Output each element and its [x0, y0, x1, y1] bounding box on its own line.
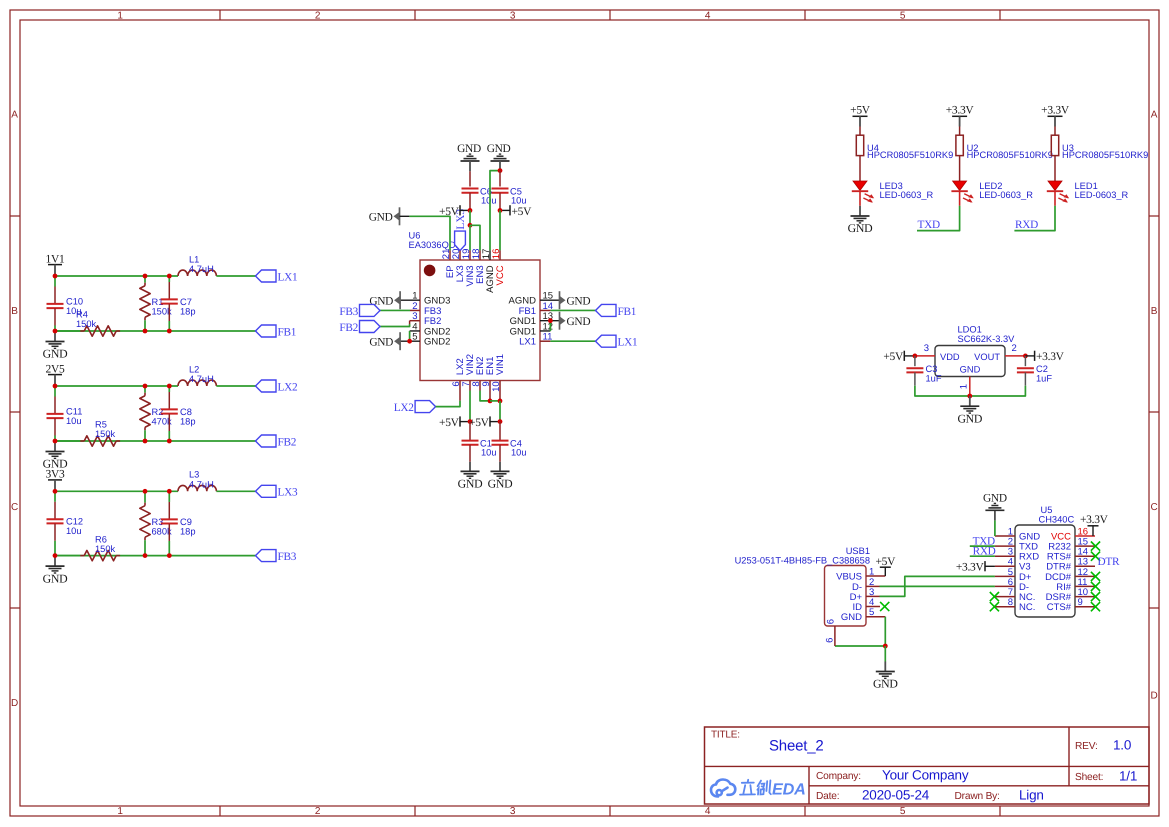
svg-text:+5V: +5V	[850, 105, 871, 117]
capacitor C9	[168, 491, 170, 502]
wire USB GND net	[884, 617, 886, 646]
junction C1 top	[468, 419, 473, 424]
svg-text:FB1: FB1	[278, 326, 297, 338]
svg-text:C11: C11	[66, 407, 82, 417]
resistor U4 HPCR0805F510RK9	[859, 127, 861, 136]
svg-text:USB1: USB1	[846, 546, 870, 556]
svg-text:2020-05-24: 2020-05-24	[862, 787, 930, 802]
U6 pin4 stub	[410, 330, 420, 332]
svg-text:VOUT: VOUT	[974, 352, 1000, 362]
EasyEDA logo	[711, 780, 735, 797]
wire pin10 down to +5V/C4	[499, 401, 501, 422]
LED LED3	[853, 181, 867, 190]
U5 pin3 stub	[995, 555, 1015, 557]
U6 pin1 wire to GND flag	[400, 299, 420, 301]
U6 pin6 stub	[459, 381, 461, 401]
no-connect X (USB ID)	[880, 602, 889, 611]
no-connect X (U5 pin14)	[1091, 552, 1100, 561]
junction USB ground	[883, 644, 888, 649]
U5 pin4 stub	[995, 565, 1015, 567]
svg-text:EDA: EDA	[772, 781, 806, 799]
GND flag (U6 pin15)	[559, 291, 561, 309]
ground (LDO)	[969, 396, 971, 406]
capacitor C3	[914, 356, 916, 366]
GND flag (U6 pin5)	[399, 332, 401, 350]
junction C3 top	[913, 354, 918, 359]
svg-text:GND: GND	[457, 143, 481, 155]
svg-text:1: 1	[117, 806, 123, 817]
U5 pin16 stub VCC	[1075, 535, 1095, 537]
U5 pin12 stub	[1075, 575, 1095, 577]
junction pin10	[498, 399, 503, 404]
GND flag (U6 pin1)	[399, 291, 401, 309]
svg-text:Sheet:: Sheet:	[1075, 772, 1103, 783]
svg-text:TITLE:: TITLE:	[711, 730, 740, 741]
U5 pin9 stub	[1075, 606, 1095, 608]
svg-text:VCC: VCC	[495, 265, 506, 285]
svg-text:RXD: RXD	[973, 546, 996, 558]
svg-text:18p: 18p	[180, 417, 196, 427]
wire pin17 AGND up to GND	[490, 171, 500, 251]
svg-text:TXD: TXD	[918, 219, 940, 231]
svg-text:3: 3	[924, 343, 929, 354]
svg-text:6: 6	[824, 638, 835, 643]
svg-text:A: A	[1151, 110, 1158, 121]
no-connect X (U5 pin12)	[1091, 572, 1100, 581]
port FB3	[256, 550, 277, 562]
capacitor C8	[168, 386, 170, 392]
junction C2 top	[1023, 354, 1028, 359]
svg-text:150k: 150k	[95, 429, 116, 439]
junction +5V / C6	[468, 208, 473, 213]
svg-text:GND: GND	[369, 336, 393, 348]
U6 pin10 stub	[499, 381, 501, 401]
capacitor C2	[1024, 356, 1026, 366]
svg-text:LX1: LX1	[618, 337, 638, 349]
LED LED1	[1048, 181, 1062, 190]
port FB1 (U6)	[596, 304, 617, 316]
U6 pin11 stub	[540, 340, 550, 342]
svg-text:2: 2	[315, 806, 321, 817]
port FB1	[256, 325, 277, 337]
inductor L2	[178, 380, 216, 386]
capacitor C12	[54, 491, 56, 502]
svg-text:GND: GND	[567, 316, 591, 328]
U6 pin7 stub	[469, 381, 471, 391]
ground (below C4)	[499, 462, 501, 471]
resistor R5	[55, 440, 80, 442]
wire C5 junction to pin16	[499, 210, 501, 250]
U6 pin18 stub	[479, 250, 481, 260]
U6 pin17 stub	[489, 250, 491, 260]
wire pin7 to +5V/C1	[469, 391, 471, 422]
svg-text:LX1: LX1	[278, 271, 298, 283]
capacitor C6	[469, 171, 471, 186]
svg-text:1uF: 1uF	[926, 374, 942, 384]
svg-text:2V5: 2V5	[46, 363, 65, 375]
svg-text:FB3: FB3	[278, 551, 297, 563]
no-connect X (U5 pin9)	[1091, 602, 1100, 611]
svg-text:GND2: GND2	[424, 337, 450, 348]
svg-text:4.7uH: 4.7uH	[189, 264, 214, 274]
wire D- to CH340	[880, 585, 995, 587]
svg-text:R4: R4	[76, 310, 88, 320]
svg-text:L1: L1	[189, 254, 199, 264]
U5 pin13 stub DTR	[1075, 565, 1095, 567]
U5 pin10 stub	[1075, 596, 1095, 598]
svg-text:NC.: NC.	[1019, 602, 1035, 613]
svg-text:GND: GND	[960, 365, 981, 375]
svg-text:Company:: Company:	[816, 771, 861, 782]
svg-text:LED-0603_R: LED-0603_R	[880, 190, 934, 200]
U5 pin15 stub	[1075, 545, 1095, 547]
svg-text:GND: GND	[983, 493, 1007, 505]
ground (below C1)	[469, 462, 471, 471]
svg-text:C2: C2	[1036, 364, 1048, 374]
svg-text:HPCR0805F510RK9: HPCR0805F510RK9	[867, 150, 953, 160]
port FB2	[256, 435, 277, 447]
svg-text:VDD: VDD	[940, 352, 960, 362]
wire TXD net	[970, 545, 995, 547]
U6 pin9 stub	[489, 381, 491, 401]
IC U5 CH340C body	[1015, 525, 1075, 617]
svg-text:+5V: +5V	[439, 417, 460, 429]
svg-text:RXD: RXD	[1015, 219, 1038, 231]
GND flag (U6 pin13)	[559, 312, 561, 330]
U5 pin11 stub	[1075, 585, 1095, 587]
svg-text:Drawn By:: Drawn By:	[955, 791, 1000, 802]
svg-text:+3.3V: +3.3V	[956, 562, 985, 574]
resistor U3 HPCR0805F510RK9	[1054, 127, 1056, 136]
no-connect X (U5 pin11)	[1091, 582, 1100, 591]
svg-text:VBUS: VBUS	[836, 571, 862, 582]
svg-text:CH340C: CH340C	[1039, 514, 1075, 524]
svg-text:C8: C8	[180, 407, 192, 417]
wire C6 junction down to pins 19/18	[469, 210, 471, 225]
svg-text:5: 5	[900, 806, 906, 817]
junction +5V / C5	[498, 208, 503, 213]
svg-text:+5V: +5V	[469, 417, 490, 429]
resistor R4	[55, 330, 80, 332]
junction U6 pin5	[407, 339, 412, 344]
svg-text:1: 1	[959, 384, 970, 389]
svg-text:4: 4	[705, 10, 711, 21]
svg-text:+3.3V: +3.3V	[1080, 514, 1109, 526]
svg-text:R6: R6	[95, 534, 107, 544]
svg-text:6: 6	[826, 619, 837, 624]
svg-text:B: B	[1151, 306, 1158, 317]
svg-text:2: 2	[1012, 343, 1017, 354]
svg-text:SC662K-3.3V: SC662K-3.3V	[958, 334, 1016, 344]
svg-text:10u: 10u	[511, 447, 527, 457]
LED1 cathode lead	[1054, 191, 1056, 205]
U6 pin3 stub	[410, 320, 420, 322]
U6 pin5 wire to GND flag	[400, 340, 420, 342]
svg-text:3V3: 3V3	[46, 469, 65, 481]
port LX1 (U6)	[596, 335, 617, 347]
no-connect X (U5 pin8)	[990, 602, 999, 611]
svg-text:C9: C9	[180, 517, 192, 527]
svg-text:GND: GND	[43, 347, 68, 361]
svg-text:GND: GND	[458, 477, 483, 491]
connector USB1 U253-051T-4BH85-FB body	[825, 566, 867, 627]
svg-text:10u: 10u	[511, 195, 527, 205]
svg-text:C7: C7	[180, 297, 192, 307]
junction LDO ground	[967, 394, 972, 399]
wire CH340 GND up	[994, 520, 996, 536]
regulator LDO1 SC662K-3.3V body	[935, 346, 1005, 377]
svg-text:C12: C12	[66, 516, 83, 526]
wire 2V5 bottom rail	[55, 440, 256, 442]
GND flag (U6 top left)	[399, 207, 401, 225]
power flag +3.3V (LDO)	[1034, 351, 1036, 361]
port FB2 (U6)	[360, 321, 381, 333]
svg-text:HPCR0805F510RK9: HPCR0805F510RK9	[967, 150, 1053, 160]
wire FB3 port to pin2	[380, 309, 410, 311]
U5 pin1 stub	[995, 535, 1015, 537]
ground (USB)	[884, 662, 886, 672]
svg-text:GND: GND	[369, 212, 393, 224]
no-connect X (U5 pin15)	[1091, 542, 1100, 551]
svg-text:10u: 10u	[481, 447, 497, 457]
svg-text:+3.3V: +3.3V	[946, 105, 975, 117]
svg-text:GND: GND	[487, 143, 511, 155]
svg-text:CTS#: CTS#	[1047, 602, 1072, 613]
capacitor C4	[499, 422, 501, 441]
svg-text:1uF: 1uF	[1036, 374, 1052, 384]
svg-text:B: B	[11, 306, 18, 317]
svg-text:R5: R5	[95, 420, 107, 430]
capacitor C10	[54, 276, 56, 287]
capacitor C11	[54, 386, 56, 397]
svg-text:FB2: FB2	[339, 322, 358, 334]
wire 1V1 top rail	[55, 275, 178, 277]
port LX2	[256, 380, 277, 392]
svg-text:LX1: LX1	[519, 337, 536, 348]
wire pin9 junction to pin10	[490, 400, 500, 402]
svg-text:D: D	[1150, 691, 1157, 702]
U6 pin2 stub	[410, 309, 420, 311]
svg-text:4.7uH: 4.7uH	[189, 374, 214, 384]
svg-text:GND: GND	[43, 571, 68, 585]
wire 3V3 bottom rail	[55, 555, 256, 557]
svg-text:+5V: +5V	[439, 206, 460, 218]
svg-text:REV:: REV:	[1075, 741, 1098, 752]
junction dots	[53, 384, 58, 389]
svg-text:3: 3	[510, 806, 516, 817]
svg-text:L3: L3	[189, 470, 199, 480]
wire L1 to port	[216, 275, 255, 277]
svg-text:18p: 18p	[180, 307, 196, 317]
U6 pin16 stub	[499, 250, 501, 260]
svg-text:18p: 18p	[180, 526, 196, 536]
capacitor C5	[499, 171, 501, 187]
ground (CH340)	[994, 510, 996, 520]
wire 3V3 top rail	[55, 490, 178, 492]
port LX2 (U6 pin6)	[415, 401, 436, 413]
junction pins 8/9	[488, 399, 493, 404]
svg-text:+3.3V: +3.3V	[1036, 351, 1065, 363]
port LX1	[256, 270, 277, 282]
svg-text:+3.3V: +3.3V	[1041, 105, 1070, 117]
svg-text:4: 4	[705, 806, 711, 817]
svg-text:GND: GND	[841, 612, 862, 623]
USB1 pin4 stub	[866, 606, 880, 608]
wire pin8 to pin9 junction	[480, 391, 490, 401]
svg-text:1: 1	[117, 10, 123, 21]
junction C5 top	[498, 168, 503, 173]
svg-text:GND: GND	[957, 411, 982, 425]
svg-text:DTR: DTR	[1098, 556, 1120, 568]
junction dots	[53, 489, 58, 494]
junction C4 top	[498, 419, 503, 424]
svg-text:C10: C10	[66, 297, 83, 307]
U5 pin7 stub	[995, 596, 1015, 598]
svg-text:GND: GND	[873, 677, 898, 691]
wire FB2 port to pin3	[380, 324, 410, 326]
USB1 pin2 stub	[866, 585, 880, 587]
resistor R2	[144, 386, 146, 393]
U6 pin15 wire to GND flag	[540, 299, 560, 301]
svg-text:A: A	[11, 110, 18, 121]
U5 pin2 stub	[995, 545, 1015, 547]
U5 pin8 stub	[995, 606, 1015, 608]
U6 pin8 stub	[479, 381, 481, 391]
resistor R3	[144, 491, 146, 502]
svg-text:+5V: +5V	[512, 206, 533, 218]
ground	[54, 331, 56, 341]
svg-text:GND: GND	[488, 477, 513, 491]
U6 pin14 stub	[540, 309, 550, 311]
U5 pin14 stub	[1075, 555, 1095, 557]
LED2 cathode lead	[959, 191, 961, 205]
svg-text:Date:: Date:	[816, 791, 839, 802]
svg-text:VIN1: VIN1	[495, 354, 506, 375]
U5 pin6 stub	[995, 585, 1015, 587]
svg-text:Lign: Lign	[1019, 787, 1044, 802]
inductor L1	[178, 270, 216, 276]
svg-text:150k: 150k	[95, 544, 116, 554]
svg-text:LED-0603_R: LED-0603_R	[1075, 190, 1129, 200]
svg-text:GND: GND	[567, 295, 591, 307]
svg-text:U253-051T-4BH85-FB_C388658: U253-051T-4BH85-FB_C388658	[735, 555, 870, 565]
U5 pin5 stub	[995, 575, 1015, 577]
wire D+ to CH340	[880, 576, 995, 596]
svg-text:LX2: LX2	[278, 381, 298, 393]
svg-text:HPCR0805F510RK9: HPCR0805F510RK9	[1062, 150, 1148, 160]
svg-text:FB1: FB1	[618, 306, 637, 318]
svg-text:C: C	[11, 502, 18, 513]
ground (below LED3)	[859, 206, 861, 216]
USB1 pin1 stub	[866, 575, 885, 577]
svg-text:FB3: FB3	[339, 306, 358, 318]
wire pin14 to FB1 port	[550, 309, 595, 311]
LED3 cathode lead	[859, 191, 861, 205]
USB1 pin5 stub	[866, 616, 885, 618]
port FB3 (U6)	[360, 304, 381, 316]
wire LED1 to RXD	[1014, 206, 1055, 231]
wire 2V5 top rail	[55, 385, 178, 387]
USB1 pin3 stub	[866, 595, 880, 597]
ground	[54, 556, 56, 566]
svg-text:150k: 150k	[76, 319, 97, 329]
svg-text:GND: GND	[848, 221, 873, 235]
wire L3 to port	[216, 490, 255, 492]
resistor R1	[144, 276, 146, 283]
svg-text:1/1: 1/1	[1119, 768, 1137, 783]
svg-text:10u: 10u	[481, 195, 497, 205]
wire GND flag to pin21	[400, 215, 410, 217]
svg-text:U5: U5	[1041, 505, 1053, 515]
resistor U2 HPCR0805F510RK9	[959, 127, 961, 136]
wire LDO ground bus	[915, 386, 1026, 396]
svg-text:+5V: +5V	[883, 351, 904, 363]
svg-text:5: 5	[900, 10, 906, 21]
capacitor C1	[469, 422, 471, 441]
junction U6 pin13	[548, 318, 553, 323]
no-connect X (U5 pin7)	[990, 592, 999, 601]
svg-text:1V1: 1V1	[46, 253, 65, 265]
svg-text:LX2: LX2	[394, 402, 414, 414]
svg-text:10u: 10u	[66, 526, 82, 536]
wire 1V1 bottom rail	[55, 330, 256, 332]
wire pin4 to pin5	[409, 331, 411, 341]
svg-text:C3: C3	[926, 364, 938, 374]
port LX3	[256, 485, 277, 497]
svg-text:LED-0603_R: LED-0603_R	[979, 190, 1033, 200]
svg-text:FB2: FB2	[278, 436, 297, 448]
ground	[54, 441, 56, 451]
wire RXD net	[970, 555, 995, 557]
title block	[705, 727, 1150, 804]
svg-text:+5V: +5V	[875, 556, 896, 568]
svg-text:LX3: LX3	[278, 487, 298, 499]
wire pin11 to LX1 port	[550, 340, 595, 342]
wire LX2 port to pin6	[436, 401, 460, 407]
no-connect X (U5 pin10)	[1091, 592, 1100, 601]
inductor L3	[178, 485, 216, 491]
svg-text:4.7uH: 4.7uH	[189, 479, 214, 489]
svg-text:Your Company: Your Company	[882, 767, 969, 782]
svg-text:Sheet_2: Sheet_2	[769, 738, 823, 755]
junction dots	[53, 274, 58, 279]
U6 pin12 stub	[540, 330, 550, 332]
svg-text:L2: L2	[189, 364, 199, 374]
capacitor C7	[168, 276, 170, 282]
svg-text:C: C	[1150, 502, 1157, 513]
wire LED2 to TXD	[917, 206, 960, 231]
wire pin12 to pin13	[549, 321, 551, 331]
U6 pin19 stub	[469, 250, 471, 260]
svg-text:1.0: 1.0	[1113, 737, 1131, 752]
svg-text:3: 3	[510, 10, 516, 21]
svg-text:10u: 10u	[66, 416, 82, 426]
IC U6 EA3036QDR body	[420, 260, 540, 381]
svg-text:2: 2	[315, 10, 321, 21]
svg-text:LDO1: LDO1	[958, 324, 982, 334]
wire L2 to port	[216, 385, 255, 387]
LED LED2	[953, 181, 967, 190]
svg-text:D: D	[11, 698, 18, 709]
port LX3 (U6 pin20)	[455, 231, 466, 251]
U6 pin20 stub	[459, 251, 461, 260]
resistor R6	[55, 555, 80, 557]
U6 pin21 stub	[449, 250, 451, 260]
U6 pin13 wire to GND flag	[540, 320, 560, 322]
